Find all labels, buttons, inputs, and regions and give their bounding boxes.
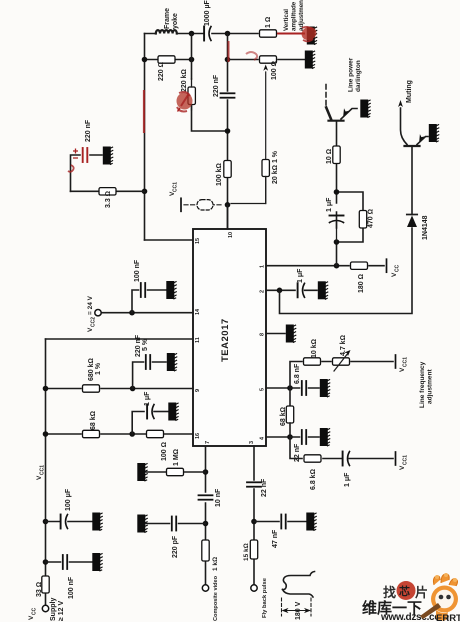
svg-text:220 nF: 220 nF [135,334,142,357]
svg-text:100 μF: 100 μF [65,488,72,511]
capacitor 220pF [172,517,176,531]
wire darlington vertical [336,122,338,266]
capacitor 1uF darlington [330,216,344,223]
svg-text:5: 5 [260,388,266,391]
resistor 15k [250,540,257,559]
wire 220n5 branch [133,362,166,389]
node 100uF [43,519,49,525]
svg-text:片: 片 [415,585,428,600]
wire pot branch x191 [192,34,226,132]
node pin5 [287,385,293,391]
svg-text:adjustment: adjustment [427,368,434,404]
node 1M [203,469,209,475]
svg-text:15: 15 [195,238,201,244]
ground pin8 [286,325,296,343]
svg-text:CC1: CC1 [403,357,409,367]
svg-text:16: 16 [195,433,201,439]
resistor 100k [224,161,231,178]
ground 100nF supply [92,553,102,571]
resistor 3R3 [99,188,116,195]
svg-text:CC1: CC1 [403,455,409,465]
parallel loop 470R [337,192,364,242]
wire pin3 chain [253,446,255,585]
resistor 10R [333,146,340,164]
terminal flyback [251,585,257,591]
svg-text:1: 1 [260,265,266,268]
node 47nF [251,519,257,525]
wire row2 220R [145,59,192,61]
svg-text:11: 11 [195,337,201,343]
IC TEA2017 [193,229,266,446]
svg-text:15 kΩ: 15 kΩ [243,543,250,561]
svg-text:CC1: CC1 [40,465,46,475]
svg-text:1 μF: 1 μF [326,197,333,212]
wire red cap branch [71,155,103,191]
node pin16 row [43,431,49,437]
svg-text:680 kΩ: 680 kΩ [88,358,95,381]
resistor 470R [359,211,366,229]
svg-text:Line power: Line power [348,57,355,92]
svg-text:68 kΩ: 68 kΩ [280,407,287,426]
node row2b left [225,57,231,63]
vcc1 bar right bottom [395,452,397,465]
svg-text:14: 14 [195,308,201,315]
ground 100uF [92,513,102,531]
svg-text:1 %: 1 % [95,362,102,375]
node top loop [334,189,340,195]
svg-text:100 Ω: 100 Ω [271,61,278,80]
node pin2 [277,288,283,294]
node 220n5 branch [130,386,136,392]
capacitor 22nF right [302,430,306,444]
wire pin15 row [145,239,194,241]
capacitor 220nF 5% [146,355,150,369]
ground 6.8nF [320,379,330,397]
resistor 180R [351,262,368,269]
wire row1 top [145,33,284,35]
capacitor 22nF flyback [247,482,261,486]
node pin1 [334,263,340,269]
resistor 680k [83,385,100,392]
svg-text:100 nF: 100 nF [134,259,141,282]
node pin9 row [43,386,49,392]
vcc1 dashed feed [184,204,222,206]
svg-text:100 kΩ: 100 kΩ [216,163,223,186]
svg-text:20 kΩ 1 %: 20 kΩ 1 % [272,150,279,184]
ground red cap [103,147,113,165]
svg-text:220 pF: 220 pF [172,535,179,558]
wiper arrow 100R [265,72,267,204]
svg-text:9: 9 [195,389,201,392]
svg-text:TEA2017: TEA2017 [220,318,231,362]
svg-text:≥ 12 V: ≥ 12 V [58,600,65,621]
svg-text:22 nF: 22 nF [294,443,301,462]
diode 1N4148 [407,215,417,228]
svg-text:22 nF: 22 nF [261,478,268,497]
svg-text:Vertical: Vertical [283,9,290,31]
frame yoke L1 [156,30,177,33]
vcc1 bar top-left [180,198,182,211]
node 100nF supply [43,559,49,565]
capacitor 100nF supply [63,555,67,569]
capacitor 6.8nF [302,381,306,395]
svg-text:10 kΩ: 10 kΩ [311,339,318,358]
resistor 33R [42,576,49,593]
ground 1uF pin9 [168,403,178,421]
wire 220pF row [146,523,206,525]
node vcc1 dashed [225,202,231,208]
wire pin14 row VCC2 [101,312,193,314]
wire pin16 row [46,433,194,435]
capacitor 1uF pin2 [298,283,305,297]
svg-text:6.8 kΩ: 6.8 kΩ [310,469,317,490]
svg-text:220 nF: 220 nF [85,119,92,142]
waveform flyback [283,572,315,598]
svg-text:10: 10 [228,232,234,238]
wire 47nF row [254,521,306,523]
capacitor 1000uF [204,27,211,41]
wire line freq branch [290,362,393,389]
wire pin8 row [266,333,285,335]
ground pin2 [318,281,328,299]
mascot [420,573,458,621]
svg-text:Muting: Muting [406,80,413,103]
watermark dzsc [362,573,460,622]
svg-text:33 Ω: 33 Ω [36,582,43,597]
node row1-yoke [189,31,195,37]
wire 1M row [146,471,206,473]
ground darlington emitter [360,100,370,118]
wire 100nF row [46,561,93,563]
red overdraw feedback line [228,41,230,62]
svg-text:= 24 V: = 24 V [87,295,94,315]
capacitor 100uF [61,515,68,529]
wire pin4 row [266,436,290,438]
vcc bar 180R [386,259,388,272]
svg-text:芯: 芯 [399,584,410,598]
potentiometer 220k [188,87,195,105]
ground 220nF 5% [167,353,177,371]
wire pin1 row [266,265,384,267]
capacitor 47nF [281,515,285,529]
red overdraw left line [143,90,145,133]
svg-text:Supply: Supply [50,598,57,621]
wire 6.8nF branch [290,387,319,389]
node row1-feedback [225,31,231,37]
node pin14 branch [129,310,135,316]
svg-text:CC2: CC2 [91,317,97,327]
red overdraw row1 [277,33,305,35]
terminal composite video [202,585,208,591]
wire 3R3 row [71,190,145,192]
ground 22nF right [320,428,330,446]
svg-text:4.7 kΩ: 4.7 kΩ [340,335,347,356]
svg-text:ERRTE: ERRTE [436,613,460,622]
svg-text:1000 µF: 1000 µF [204,0,211,26]
svg-text:8: 8 [260,333,266,336]
wire 1uF branch [132,412,144,435]
svg-text:找: 找 [383,585,396,600]
capacitor 1uF right [343,452,350,466]
svg-text:1 Ω: 1 Ω [265,17,272,28]
resistor 1R [260,30,277,37]
wire row2b 100R pot [228,59,306,61]
svg-text:68 kΩ: 68 kΩ [90,411,97,430]
transistor Q1 line power darlington [326,83,357,121]
resistor 220R [158,56,175,63]
red marks 220nF cap [73,149,78,159]
node 220pF [203,521,209,527]
resistor 1M [167,468,184,475]
svg-text:6.8 nF: 6.8 nF [294,363,301,384]
transistor Q2 muting [398,100,428,146]
wire 6.8k branch [290,437,393,459]
node bottom loop [334,239,340,245]
svg-text:yoke: yoke [172,13,179,29]
capacitor 10nF [199,495,213,499]
svg-text:Frame: Frame [164,8,171,29]
svg-text:1 μF: 1 μF [297,268,304,283]
svg-text:470 Ω: 470 Ω [368,209,375,228]
resistor 68k right [289,388,291,406]
svg-text:220 kΩ: 220 kΩ [181,69,188,92]
node row2 right [189,57,195,63]
pin labels [195,232,266,444]
ground muting emitter [429,124,439,142]
capacitor 1uF pin9 [147,405,154,419]
svg-text:Fly back pulse: Fly back pulse [262,577,268,618]
svg-text:100 nF: 100 nF [68,576,75,599]
capacitor 100nF vcc2 [141,283,145,297]
wire pin7 chain [205,446,207,585]
svg-text:1 μF: 1 μF [344,472,351,487]
ground 100nF vcc2 [166,281,176,299]
wire feedback vertical x227 [227,34,229,230]
svg-text:3: 3 [249,441,255,444]
svg-text:1N4148: 1N4148 [422,215,429,240]
resistor 100R pin16 [147,430,164,437]
capacitor 220nF red [83,148,88,162]
svg-text:100 Ω: 100 Ω [161,442,168,461]
node 1uF branch [129,431,135,437]
red annotations [68,25,318,172]
svg-text:5 %: 5 % [142,338,149,351]
svg-text:220 nF: 220 nF [213,74,220,97]
red scribble 220k pot [177,93,193,110]
svg-text:1 MΩ: 1 MΩ [173,449,180,466]
svg-text:amplitude: amplitude [291,1,298,31]
svg-text:180 Ω: 180 Ω [358,274,365,293]
wire pin5 row [266,387,290,389]
svg-text:CC: CC [32,607,38,615]
svg-text:220 Ω: 220 Ω [158,62,165,81]
ground top right row1 [307,27,317,45]
capacitor 220nF feedback [221,93,235,97]
resistor 1k video [202,540,209,561]
resistor 68k [83,430,100,437]
vcc1 bar line freq [395,355,397,368]
ground 220pF [137,515,147,533]
svg-text:Composite video: Composite video [213,575,219,621]
wire pin11 row [46,338,194,340]
ground 1M [137,463,147,481]
svg-text:3.3 Ω: 3.3 Ω [105,191,112,208]
svg-text:7: 7 [205,441,211,444]
node feedback-pot [225,128,231,134]
svg-text:darlington: darlington [355,60,362,92]
resistor 20k 1% [262,160,269,177]
svg-text:1 kΩ: 1 kΩ [212,557,219,571]
node pin4 [287,434,293,440]
wire 100n branch [132,290,166,313]
wire pin9 row [46,388,194,390]
node row2 left [142,57,148,63]
wire left main vertical [144,34,146,241]
wire pin10 top [227,205,229,229]
wire 22nF branch [290,436,319,438]
ground 47nF [306,513,316,531]
node 3R3 junction [142,189,148,195]
svg-text:47 nF: 47 nF [272,529,279,548]
terminal VCC2 [95,310,101,316]
wire left rail vertical [45,339,47,605]
wire pin2 row [266,289,317,291]
svg-text:CC: CC [395,264,401,272]
resistor 6.8k [304,455,321,462]
svg-text:Line frequency: Line frequency [419,361,426,408]
potentiometer 4.7k [333,358,350,365]
svg-text:180 V: 180 V [295,601,302,620]
svg-text:10 nF: 10 nF [215,488,222,507]
svg-text:CC1: CC1 [173,182,179,192]
ground row2b [305,51,315,69]
wire 100uF row [46,521,93,523]
terminal VCC supply [42,605,48,611]
svg-text:10 Ω: 10 Ω [326,149,333,164]
resistor 10k [304,358,321,365]
svg-text:1 μF: 1 μF [144,391,151,406]
potentiometer 100R [260,56,277,63]
svg-text:2: 2 [260,290,266,293]
wire muting loop [280,147,413,314]
